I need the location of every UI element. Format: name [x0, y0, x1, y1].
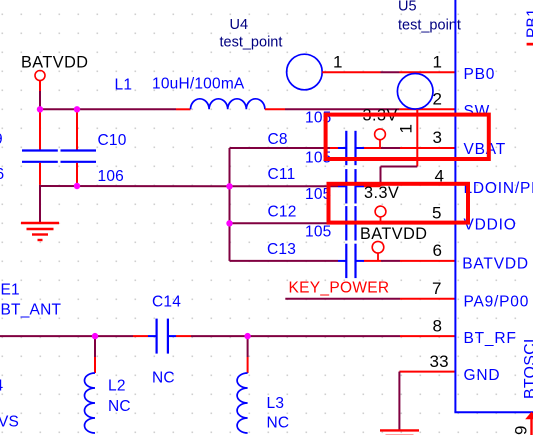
test point U4 [287, 54, 323, 90]
capacitor C8 left stub [338, 147, 346, 149]
svg-text:105: 105 [305, 224, 331, 241]
wire 106 rail [40, 185, 230, 187]
svg-text:33: 33 [430, 352, 449, 371]
junction dot BATVDD left [37, 106, 43, 112]
svg-text:BATVDD: BATVDD [21, 53, 88, 71]
wire row3 bus to C8 [230, 147, 331, 149]
wire C10 right to rail [76, 185, 78, 186]
inductor L3 [237, 373, 248, 433]
junction dot BT_RF L3 [244, 333, 250, 339]
svg-text:L3: L3 [267, 395, 285, 412]
capacitor C10 left stem upper [39, 109, 41, 149]
power symbol 3.3V lower [375, 206, 386, 223]
wire KEY_POWER [285, 298, 400, 300]
svg-text:2: 2 [433, 90, 443, 109]
highlight box 1 [326, 115, 489, 159]
svg-text:C14: C14 [152, 294, 181, 311]
wire row5 purple patch [381, 222, 400, 224]
wire row6 red mid [364, 260, 381, 262]
inductor L1 [191, 99, 265, 110]
svg-text:1: 1 [333, 53, 343, 72]
svg-text:U4: U4 [230, 17, 249, 33]
pin 1 of U5 vertical [416, 109, 418, 166]
wire L2 drop red [94, 357, 96, 373]
svg-text:BATVDD: BATVDD [360, 225, 427, 243]
svg-text:VDDIO: VDDIO [464, 216, 517, 233]
svg-text:3: 3 [433, 128, 443, 147]
junction dot 106 rail [74, 183, 80, 189]
pin 1 of U4 [322, 71, 380, 73]
svg-text:7: 7 [432, 279, 442, 298]
pin 8 BT_RF [400, 335, 456, 337]
wire U4 to PB0 [381, 71, 400, 73]
wire L3 drop purple [247, 336, 249, 357]
pin 5 VDDIO [400, 222, 456, 224]
capacitor C13 right stub [356, 260, 364, 262]
capacitor C14 left stub [148, 335, 156, 337]
wire ground bus vertical [229, 148, 231, 261]
svg-text:PB1: PB1 [524, 8, 533, 38]
power symbol BATVDD middle [372, 241, 384, 261]
svg-text:NC: NC [267, 415, 290, 432]
junction dot bus row5 [226, 220, 232, 226]
capacitor C10 left stem lower [39, 163, 41, 185]
wire row6 bus to C13 [230, 260, 339, 262]
pin 7 PA9/P00 [400, 298, 456, 300]
capacitor C10 right plates [61, 151, 97, 162]
svg-text:U5: U5 [398, 0, 417, 14]
svg-text:NC: NC [152, 370, 175, 387]
wire L1 to pin SW [285, 108, 399, 110]
svg-text:1: 1 [433, 53, 443, 72]
wire C10 left to rail [39, 185, 41, 186]
svg-text:106: 106 [98, 168, 124, 185]
wire BT_RF mid [191, 335, 400, 337]
svg-text:test_point: test_point [398, 18, 461, 34]
wire C14 right lead [176, 335, 191, 337]
wire row6 purple patch [381, 260, 400, 262]
capacitor C11 right stub [356, 185, 364, 187]
svg-text:9: 9 [512, 425, 531, 435]
wire U5 step horizontal [381, 166, 418, 168]
IC U? bottom edge [454, 411, 533, 413]
capacitor C8 plates [346, 131, 355, 165]
power symbol 3.3V upper [375, 129, 386, 148]
svg-text:3.3V: 3.3V [364, 184, 399, 202]
svg-text:SW: SW [464, 103, 491, 120]
capacitor C10 left plates [22, 151, 58, 162]
svg-text:8: 8 [433, 316, 443, 335]
wire L2 drop purple [94, 336, 96, 357]
wire row5 bus to C12 [230, 222, 339, 224]
svg-text:BT_ANT: BT_ANT [1, 302, 62, 319]
svg-text:PB0: PB0 [464, 66, 496, 83]
wire ground drop [39, 186, 41, 222]
svg-text:test_point: test_point [220, 35, 283, 51]
svg-text:C8: C8 [268, 131, 288, 148]
junction dot BT_RF L2 [92, 333, 98, 339]
svg-text:C11: C11 [268, 166, 296, 183]
svg-text:L1: L1 [115, 77, 133, 94]
svg-text:10uH/100mA: 10uH/100mA [152, 76, 245, 93]
capacitor C11 plates [346, 169, 355, 203]
svg-text:6: 6 [433, 241, 443, 260]
svg-text:9: 9 [0, 131, 3, 148]
svg-text:1: 1 [397, 124, 416, 134]
pin 1 PB0 [400, 71, 456, 73]
capacitor C10 right stem lower [76, 163, 78, 185]
ground symbol bottom [380, 430, 419, 435]
test point U5 [397, 74, 433, 110]
svg-text:C10: C10 [98, 132, 127, 149]
junction dot BATVDD right [74, 106, 80, 112]
junction dot bus row4 [226, 183, 232, 189]
capacitor C8 right stub [356, 147, 364, 149]
capacitor C10 right stem upper [76, 109, 78, 149]
wire GND drop [398, 372, 400, 430]
pin 4 LDOIN [381, 183, 456, 185]
capacitor C11 left stub [338, 185, 346, 187]
svg-text:C13: C13 [267, 241, 296, 258]
svg-text:BT_RF: BT_RF [464, 330, 517, 347]
svg-text:GND: GND [464, 367, 501, 384]
svg-text:VBAT: VBAT [464, 141, 507, 158]
wire L1 right lead [265, 108, 285, 110]
inductor L2 [85, 373, 96, 433]
svg-text:4: 4 [0, 378, 4, 395]
pin 33 GND [399, 371, 455, 373]
capacitor C12 right stub [356, 222, 364, 224]
highlight box 2 [329, 184, 469, 223]
ground symbol left [21, 223, 59, 240]
capacitor C14 right stub [169, 335, 176, 337]
svg-text:BATVDD: BATVDD [462, 255, 529, 272]
wire row3 purple patch [381, 147, 400, 149]
wire L1 left lead [176, 108, 191, 110]
svg-text:C12: C12 [268, 204, 297, 221]
wire U5 step vertical [380, 167, 382, 187]
wire BATVDD stem [39, 91, 41, 109]
wire row4 to zigzag [364, 185, 381, 187]
capacitor C12 left stub [338, 222, 346, 224]
wire row3 red mid [364, 147, 381, 149]
wire row4 bus to C11 [230, 185, 339, 187]
svg-text:5: 5 [432, 204, 442, 223]
svg-text:L2: L2 [108, 378, 126, 395]
capacitor C13 left stub [338, 260, 346, 262]
wire C14 left lead [133, 335, 148, 337]
pin 2 SW [399, 108, 455, 110]
wire top rail BATVDD to L1 [39, 108, 176, 110]
svg-text:LDOIN/PB: LDOIN/PB [464, 180, 533, 197]
svg-text:PA9/P00: PA9/P00 [464, 294, 530, 311]
wire row3 red lead left [330, 147, 338, 149]
wire L3 drop red [247, 357, 249, 373]
svg-text:KEY_POWER: KEY_POWER [289, 279, 390, 296]
wire row5 red mid [364, 222, 381, 224]
pin stub red top right [527, 43, 533, 46]
capacitor C13 plates [346, 244, 355, 278]
IC U? left edge [454, 0, 456, 412]
svg-text:VS: VS [0, 414, 19, 431]
capacitor C12 plates [346, 206, 355, 240]
svg-text:NC: NC [108, 398, 131, 415]
pin 6 BATVDD [400, 260, 456, 262]
pin 3 VBAT [400, 147, 456, 149]
power symbol BATVDD top-left [35, 71, 45, 92]
pin 9 bottom with arrowhead [525, 412, 533, 435]
svg-text:BTOSCI: BTOSCI [522, 339, 533, 399]
capacitor C14 plates [157, 319, 168, 354]
wire BT_RF left [0, 335, 133, 337]
svg-text:E1: E1 [1, 282, 20, 299]
svg-text:6: 6 [0, 166, 4, 183]
